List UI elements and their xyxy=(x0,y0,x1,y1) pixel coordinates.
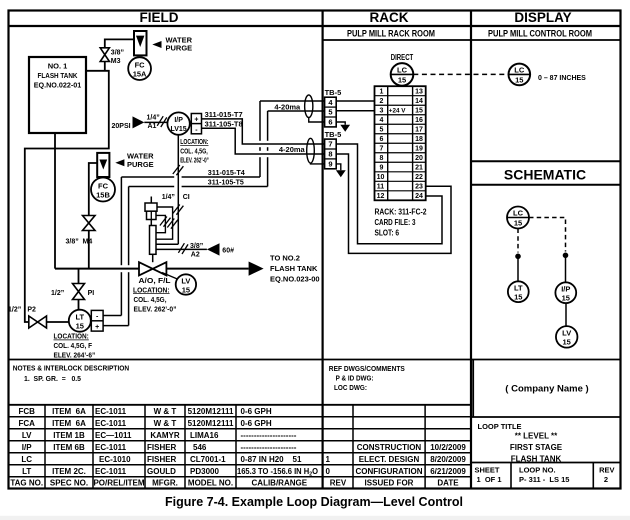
schematic LV xyxy=(556,326,578,348)
svg-text:W & T: W & T xyxy=(154,407,177,416)
svg-text:LV: LV xyxy=(562,329,571,338)
main process line xyxy=(55,268,139,270)
svg-text:2: 2 xyxy=(380,98,384,105)
svg-text:7: 7 xyxy=(380,146,384,153)
svg-text:COL. 4,5G,: COL. 4,5G, xyxy=(134,297,167,304)
svg-text:311-015-T7: 311-015-T7 xyxy=(205,112,243,119)
svg-text:PURGE: PURGE xyxy=(127,160,154,169)
svg-text:REV: REV xyxy=(599,465,614,474)
label I/P location xyxy=(180,139,209,164)
svg-text:23: 23 xyxy=(415,184,423,191)
svg-text:15: 15 xyxy=(398,76,406,85)
svg-text:60#: 60# xyxy=(222,247,234,254)
svg-text:1. SP. GR. = 0.5: 1. SP. GR. = 0.5 xyxy=(24,374,81,383)
svg-text:DISPLAY: DISPLAY xyxy=(514,10,571,25)
svg-text:4-20ma: 4-20ma xyxy=(274,102,301,111)
svg-text:10/2/2009: 10/2/2009 xyxy=(430,443,466,452)
svg-text:SHEET: SHEET xyxy=(474,465,499,474)
svg-text:22: 22 xyxy=(415,174,423,181)
svg-text:12: 12 xyxy=(377,193,385,200)
svg-text:LOCATION:: LOCATION: xyxy=(54,332,89,341)
svg-text:8: 8 xyxy=(380,155,384,162)
svg-text:3/8”: 3/8” xyxy=(111,50,124,57)
instrument FC 15A xyxy=(128,57,151,80)
svg-text:0-87 IN H20 51: 0-87 IN H20 51 xyxy=(241,455,302,464)
svg-text:1/2”: 1/2” xyxy=(8,307,21,314)
svg-text:6/21/2009: 6/21/2009 xyxy=(430,467,466,476)
tubing CI to positioner xyxy=(156,243,178,245)
svg-text:LC: LC xyxy=(397,66,408,75)
tubing CI vertical xyxy=(177,135,179,244)
instrument index table grid xyxy=(9,405,472,489)
svg-text:4: 4 xyxy=(380,117,384,124)
svg-text:ELEV. 262’-0”: ELEV. 262’-0” xyxy=(180,158,209,165)
svg-text:EC-1010: EC-1010 xyxy=(99,455,131,464)
svg-text:SCHEMATIC: SCHEMATIC xyxy=(504,167,586,183)
wire TB5 to card 3 xyxy=(336,110,374,112)
svg-text:15: 15 xyxy=(76,322,84,331)
svg-text:FISHER: FISHER xyxy=(147,443,177,452)
svg-text:15: 15 xyxy=(562,294,570,303)
positioner box connector xyxy=(150,220,152,226)
svg-text:9: 9 xyxy=(380,165,384,172)
terminal block TB-5 upper xyxy=(325,97,337,127)
svg-text:FIRST STAGE: FIRST STAGE xyxy=(510,443,563,452)
svg-text:1: 1 xyxy=(326,455,331,464)
svg-text:PO/REL/ITEM: PO/REL/ITEM xyxy=(93,479,144,488)
svg-text:MFGR.: MFGR. xyxy=(152,479,178,488)
svg-text:---------------------: --------------------- xyxy=(241,431,297,440)
svg-text:24: 24 xyxy=(415,193,423,200)
pipe purge FC15B xyxy=(89,163,97,216)
wire T5 xyxy=(103,111,325,326)
svg-text:ELEV. 262’-0”: ELEV. 262’-0” xyxy=(134,307,177,314)
ground drain TB6 xyxy=(336,122,350,132)
svg-text:5120M12111: 5120M12111 xyxy=(188,419,234,428)
svg-text:( Company Name ): ( Company Name ) xyxy=(505,384,588,395)
valve PI xyxy=(73,284,85,300)
revision table entries xyxy=(326,443,467,488)
svg-text:LOCATION:: LOCATION: xyxy=(180,139,208,146)
svg-text:A/O, F/L: A/O, F/L xyxy=(139,278,172,285)
svg-text:ITEM 6B: ITEM 6B xyxy=(53,443,85,452)
svg-text:LIMA16: LIMA16 xyxy=(190,431,219,440)
svg-text:ITEM 6A: ITEM 6A xyxy=(52,407,86,416)
purge arrow B xyxy=(115,159,124,166)
svg-text:165.3 TO -156.6 IN H2O: 165.3 TO -156.6 IN H2O xyxy=(237,467,318,478)
svg-text:1 OF 1: 1 OF 1 xyxy=(476,475,501,484)
svg-text:RACK: 311-FC-2: RACK: 311-FC-2 xyxy=(375,208,427,217)
transmitter LT 15 xyxy=(69,310,91,332)
I/P terminal box xyxy=(191,114,201,134)
svg-text:14: 14 xyxy=(415,98,423,105)
purge arrow A xyxy=(152,41,161,48)
control valve LV15 xyxy=(139,262,166,275)
controller LC 15 xyxy=(391,63,414,86)
svg-text:TO NO.2: TO NO.2 xyxy=(270,254,300,263)
LT terminal box xyxy=(91,310,103,331)
card pin numbers right xyxy=(415,89,423,201)
valve PI stems xyxy=(78,269,80,284)
svg-text:TB-5: TB-5 xyxy=(325,130,342,139)
svg-text:15B: 15B xyxy=(96,191,110,200)
tubing lower box to actuator xyxy=(156,215,165,232)
svg-text:FISHER: FISHER xyxy=(147,455,177,464)
svg-text:20PSI: 20PSI xyxy=(112,123,131,130)
svg-text:EC-1011: EC-1011 xyxy=(95,407,127,416)
svg-text:LV15: LV15 xyxy=(170,126,186,133)
hash tubing b xyxy=(160,217,171,227)
svg-text:FC: FC xyxy=(135,61,146,70)
svg-text:LT: LT xyxy=(22,467,31,476)
wire TB7 to card 24 xyxy=(336,144,442,244)
svg-text:GOULD: GOULD xyxy=(147,467,176,476)
svg-text:311-105-T5: 311-105-T5 xyxy=(208,179,244,186)
schematic dashed LC down xyxy=(517,229,519,253)
svg-text:4-20ma: 4-20ma xyxy=(279,145,306,154)
svg-text:CALIB/RANGE: CALIB/RANGE xyxy=(252,479,308,488)
table header row xyxy=(10,479,307,488)
actuator body xyxy=(150,226,157,255)
pipe tank outlet xyxy=(54,133,56,269)
svg-text:18: 18 xyxy=(415,136,423,143)
svg-text:** LEVEL **: ** LEVEL ** xyxy=(515,432,558,441)
svg-text:8: 8 xyxy=(328,150,332,159)
svg-text:REV: REV xyxy=(330,479,347,488)
svg-text:546: 546 xyxy=(193,443,207,452)
svg-text:SLOT: 6: SLOT: 6 xyxy=(375,229,400,238)
supply arrow A2 xyxy=(207,243,220,255)
svg-text:PURGE: PURGE xyxy=(166,44,193,53)
valve M3 stems xyxy=(104,62,106,71)
rotameter FC15A xyxy=(134,31,147,55)
positioner vent stub xyxy=(150,197,152,204)
svg-text:3/8”: 3/8” xyxy=(66,239,79,246)
tubing top box to actuator xyxy=(156,207,173,239)
shield drain top xyxy=(309,118,325,123)
svg-text:DIRECT: DIRECT xyxy=(391,53,414,62)
svg-text:I/P: I/P xyxy=(174,117,183,124)
wire T7 xyxy=(202,119,325,144)
svg-text:1: 1 xyxy=(380,89,384,96)
table row LC xyxy=(21,455,302,464)
svg-text:11: 11 xyxy=(377,184,385,191)
svg-text:DATE: DATE xyxy=(437,479,459,488)
wire T4 xyxy=(103,101,325,316)
svg-text:0 – 87 INCHES: 0 – 87 INCHES xyxy=(538,75,586,82)
svg-text:2: 2 xyxy=(604,475,608,484)
svg-text:EC-1011: EC-1011 xyxy=(95,467,127,476)
label LT location xyxy=(54,332,96,360)
svg-text:CONSTRUCTION: CONSTRUCTION xyxy=(357,443,422,452)
svg-text:ELECT. DESIGN: ELECT. DESIGN xyxy=(359,455,420,464)
svg-text:15: 15 xyxy=(182,286,190,295)
svg-text:LC: LC xyxy=(514,66,525,75)
terminal block TB-5 lower xyxy=(325,139,337,169)
svg-text:RACK: RACK xyxy=(370,10,409,25)
schematic line I/P to LV xyxy=(565,303,567,326)
svg-text:+24 V: +24 V xyxy=(389,107,406,114)
svg-text:EC-1011: EC-1011 xyxy=(95,419,127,428)
table row FCB xyxy=(18,407,271,416)
table row LV xyxy=(22,431,297,440)
svg-text:EQ.NO.022-01: EQ.NO.022-01 xyxy=(34,81,82,90)
svg-text:LOOP NO.: LOOP NO. xyxy=(519,465,556,474)
card pin numbers left xyxy=(377,89,385,201)
svg-text:EQ.NO.023-00: EQ.NO.023-00 xyxy=(270,275,320,284)
schematic dashed LC right xyxy=(529,218,566,252)
cable oval top xyxy=(305,95,313,118)
svg-text:LT: LT xyxy=(514,284,523,293)
svg-text:TAG NO.: TAG NO. xyxy=(10,479,43,488)
svg-text:21: 21 xyxy=(415,165,423,172)
svg-text:I/P: I/P xyxy=(22,443,32,452)
supply line A1 xyxy=(144,121,167,123)
wire T8 xyxy=(202,128,325,154)
hash A1 xyxy=(157,116,167,127)
supply line A2 xyxy=(156,248,207,250)
svg-text:19: 19 xyxy=(415,146,423,153)
svg-text:LV: LV xyxy=(181,277,190,286)
svg-text:20: 20 xyxy=(415,155,423,162)
schematic LT xyxy=(508,281,529,302)
svg-text:311-105-T8: 311-105-T8 xyxy=(205,121,243,128)
valve M3 xyxy=(100,48,109,62)
svg-text:5: 5 xyxy=(328,108,332,117)
svg-text:PULP MILL RACK ROOM: PULP MILL RACK ROOM xyxy=(347,29,435,40)
svg-text:CONFIGURATION: CONFIGURATION xyxy=(356,467,423,476)
svg-text:COL. 4,5G, F: COL. 4,5G, F xyxy=(54,341,93,350)
table row I/P xyxy=(22,443,297,452)
svg-text:3: 3 xyxy=(380,108,384,115)
svg-text:ITEM 1B: ITEM 1B xyxy=(53,431,85,440)
shared display link dashed xyxy=(413,73,508,75)
svg-text:8/20/2009: 8/20/2009 xyxy=(430,455,466,464)
svg-text:FC: FC xyxy=(98,182,109,191)
positioner top box xyxy=(145,203,157,211)
svg-text:0-6 GPH: 0-6 GPH xyxy=(241,407,272,416)
svg-text:15: 15 xyxy=(415,108,423,115)
svg-text:ITEM 6A: ITEM 6A xyxy=(52,419,86,428)
svg-text:LC: LC xyxy=(513,209,524,218)
svg-text:3/8”: 3/8” xyxy=(190,243,203,250)
svg-text:1/4”: 1/4” xyxy=(147,114,160,121)
svg-text:TB-5: TB-5 xyxy=(325,88,342,97)
svg-text:MODEL NO.: MODEL NO. xyxy=(188,479,233,488)
svg-text:P2: P2 xyxy=(27,307,36,314)
svg-text:15: 15 xyxy=(514,219,522,228)
label LV location xyxy=(133,287,177,313)
svg-text:COL. 4,5G,: COL. 4,5G, xyxy=(180,148,208,155)
supply arrow A1 xyxy=(133,116,145,128)
svg-text:15: 15 xyxy=(563,338,571,347)
valve M4 xyxy=(83,216,96,231)
svg-text:FIELD: FIELD xyxy=(140,10,179,25)
svg-text:CL7001-1: CL7001-1 xyxy=(190,455,226,464)
svg-text:---------------------: --------------------- xyxy=(241,443,297,452)
shield drain bottom xyxy=(311,162,325,165)
svg-text:A2: A2 xyxy=(191,251,200,258)
ground drain TB9 xyxy=(336,164,346,177)
svg-text:P- 311 - LS 15: P- 311 - LS 15 xyxy=(519,475,569,484)
schematic line node to I/P xyxy=(565,255,567,282)
svg-text:7: 7 xyxy=(328,140,332,149)
svg-text:EC-1011: EC-1011 xyxy=(95,443,127,452)
svg-text:10: 10 xyxy=(377,174,385,181)
svg-text:CI: CI xyxy=(183,194,190,201)
svg-text:9: 9 xyxy=(328,160,332,169)
svg-text:311-015-T4: 311-015-T4 xyxy=(208,170,245,177)
rotameter FC15B xyxy=(97,153,109,177)
svg-text:FLASH TANK: FLASH TANK xyxy=(38,71,78,80)
svg-text:1/4”: 1/4” xyxy=(162,194,175,201)
tag line valve to LV bubble xyxy=(162,273,179,280)
svg-text:5: 5 xyxy=(380,127,384,134)
svg-text:CARD FILE: 3: CARD FILE: 3 xyxy=(375,218,416,227)
flow arrow to no.2 flash tank xyxy=(249,262,264,276)
schematic line node to LT xyxy=(517,256,519,281)
svg-text:NOTES & INTERLOCK DESCRIPTION: NOTES & INTERLOCK DESCRIPTION xyxy=(13,364,130,373)
svg-text:15A: 15A xyxy=(133,70,147,79)
actuator stem xyxy=(152,254,154,262)
display controller LC 15 xyxy=(509,64,531,86)
svg-text:FCB: FCB xyxy=(18,407,35,416)
svg-text:16: 16 xyxy=(415,117,423,124)
svg-text:5120M12111: 5120M12111 xyxy=(188,407,234,416)
svg-text:M3: M3 xyxy=(111,58,121,65)
svg-text:EC—1011: EC—1011 xyxy=(95,431,132,440)
svg-text:I/P: I/P xyxy=(561,285,570,294)
svg-text:+: + xyxy=(194,117,198,124)
instrument FC 15B xyxy=(91,178,115,202)
svg-text:A1: A1 xyxy=(148,123,157,130)
schematic LC xyxy=(507,207,529,229)
wire TB8 to card 23 xyxy=(336,154,451,253)
table row LT xyxy=(22,467,318,478)
svg-text:M4: M4 xyxy=(83,239,93,246)
svg-text:6: 6 xyxy=(328,118,332,127)
svg-text:0-6 GPH: 0-6 GPH xyxy=(241,419,272,428)
svg-text:13: 13 xyxy=(415,89,423,96)
hash tubing a xyxy=(167,219,178,229)
svg-text:ISSUED FOR: ISSUED FOR xyxy=(365,479,414,488)
pipe P2 to LT xyxy=(47,321,69,323)
svg-text:6: 6 xyxy=(380,136,384,143)
page edge strip xyxy=(0,516,630,520)
schematic I/P xyxy=(555,282,576,303)
hash CI upper xyxy=(173,165,184,175)
svg-text:LOOP TITLE: LOOP TITLE xyxy=(478,422,522,431)
svg-text:ELEV. 264’-6”: ELEV. 264’-6” xyxy=(54,351,96,360)
svg-text:PULP MILL CONTROL ROOM: PULP MILL CONTROL ROOM xyxy=(488,29,592,40)
svg-text:LC: LC xyxy=(21,455,32,464)
svg-text:REF DWGS/COMMENTS: REF DWGS/COMMENTS xyxy=(329,364,405,373)
svg-text:0: 0 xyxy=(326,467,331,476)
svg-text:Figure 7-4. Example Loop Diagr: Figure 7-4. Example Loop Diagram—Level C… xyxy=(165,495,463,509)
svg-text:PI: PI xyxy=(88,290,95,297)
svg-text:FCA: FCA xyxy=(18,419,35,428)
svg-text:LOCATION:: LOCATION: xyxy=(133,287,170,294)
svg-text:1/2”: 1/2” xyxy=(51,290,64,297)
instrument LV 15 bubble xyxy=(176,274,196,294)
svg-text:FLASH TANK: FLASH TANK xyxy=(511,455,562,464)
svg-text:PD3000: PD3000 xyxy=(190,467,219,476)
transducer I/P LV15 xyxy=(167,112,189,134)
svg-text:LOC DWG:: LOC DWG: xyxy=(334,383,367,392)
vessel NO.1 flash tank xyxy=(29,57,86,133)
svg-text:17: 17 xyxy=(415,127,423,134)
svg-text:W & T: W & T xyxy=(154,419,177,428)
svg-text:15: 15 xyxy=(515,76,523,85)
svg-text:LV: LV xyxy=(22,431,32,440)
svg-text:LT: LT xyxy=(75,313,84,322)
svg-text:P & ID DWG:: P & ID DWG: xyxy=(336,374,374,383)
svg-text:KAMYR: KAMYR xyxy=(150,431,180,440)
svg-text:SPEC NO.: SPEC NO. xyxy=(50,479,88,488)
hash A2 xyxy=(178,243,188,254)
card file terminal strip xyxy=(375,86,426,200)
svg-text:15: 15 xyxy=(514,293,522,302)
pipe tank upper tap to P2 xyxy=(25,71,109,322)
positioner lower box xyxy=(147,211,157,219)
svg-text:FLASH TANK: FLASH TANK xyxy=(270,264,318,273)
cable oval bottom xyxy=(307,138,315,163)
svg-text:+: + xyxy=(95,324,99,331)
table row FCA xyxy=(18,419,271,428)
wire TB4 to card 2 xyxy=(336,100,374,102)
junction node left xyxy=(515,253,521,259)
valve P2 xyxy=(29,316,47,328)
hash CI lower xyxy=(173,205,184,215)
svg-text:NO. 1: NO. 1 xyxy=(48,62,68,71)
svg-text:ITEM 2C.: ITEM 2C. xyxy=(52,467,86,476)
junction node right xyxy=(563,253,569,259)
